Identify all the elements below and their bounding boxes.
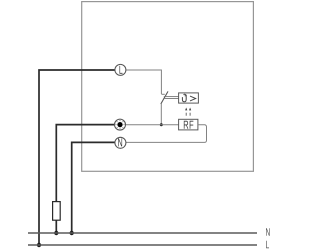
letter N in terminal bbox=[118, 138, 122, 146]
label L (mains live) bbox=[266, 241, 269, 249]
terminal N bbox=[115, 137, 126, 148]
wire: RF box right side to terminal N (thin) bbox=[126, 125, 207, 143]
theta curl dot bbox=[185, 95, 187, 96]
wire: terminal L right to switch (thin) bbox=[126, 70, 161, 94]
wire: output terminal to RF box (thin) bbox=[126, 124, 179, 126]
junction L wire / L rail bbox=[37, 243, 41, 247]
RF receiver box bbox=[179, 119, 198, 130]
wire: switched output terminal to resistor bbox=[56, 125, 114, 202]
label theta inside thermostat box bbox=[182, 94, 186, 102]
label > inside thermostat box bbox=[190, 96, 196, 101]
terminal switched output (circle with radial ticks and dot) bbox=[115, 119, 126, 130]
thermostat box (temperature switch) bbox=[179, 93, 199, 103]
switch blade bbox=[161, 91, 168, 104]
enclosure (receiver unit outline) bbox=[82, 2, 254, 172]
RF link arrow 1 (radio signal up) bbox=[185, 113, 187, 116]
wire: L feed from terminal L down to L rail bbox=[39, 70, 115, 245]
linkage double line from blade to thermostat box bbox=[164, 96, 179, 98]
wire: N terminal down to N rail bbox=[72, 142, 115, 233]
label N (mains neutral) bbox=[266, 228, 270, 236]
RF link arrow 2 (radio signal up) bbox=[189, 113, 191, 116]
label RF bbox=[184, 121, 194, 129]
junction node on switched-output wire bbox=[160, 123, 163, 126]
resistor (load) body bbox=[53, 202, 61, 221]
junction N wire / N rail bbox=[70, 231, 74, 235]
N rail (mains neutral) bbox=[28, 232, 257, 234]
terminal L bbox=[115, 64, 126, 75]
wire: resistor lead to N rail bbox=[55, 220, 57, 233]
junction resistor / N rail bbox=[54, 231, 58, 235]
L rail (mains live) bbox=[28, 244, 257, 246]
wire: switch to junction node bbox=[160, 104, 162, 125]
switch fixed contact tick bbox=[161, 93, 164, 95]
letter L in terminal bbox=[119, 66, 122, 74]
